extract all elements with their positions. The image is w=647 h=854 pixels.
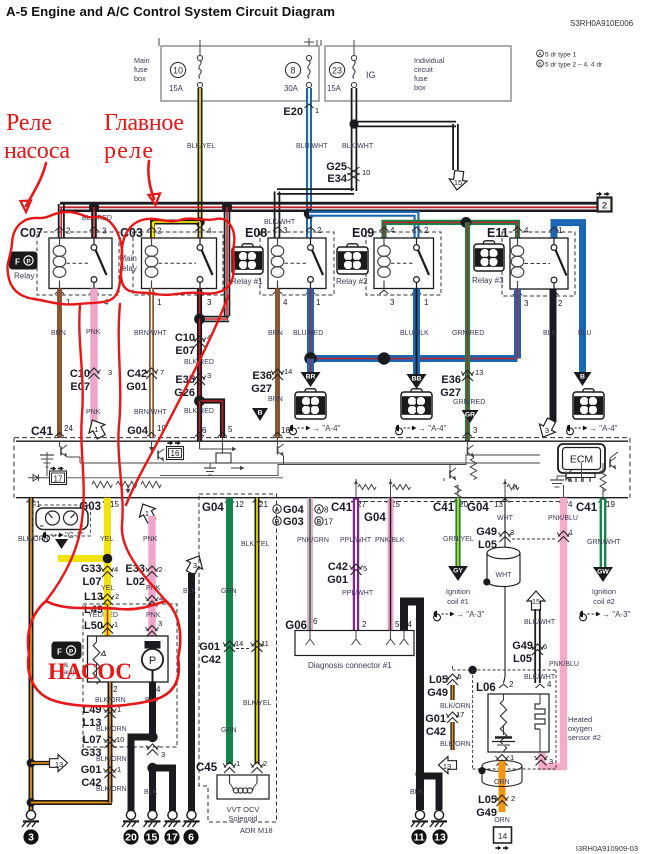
- svg-text:2: 2: [424, 226, 429, 235]
- svg-text:PPL/WHT: PPL/WHT: [342, 590, 374, 597]
- svg-text:2: 2: [511, 794, 515, 803]
- svg-text:L05: L05: [429, 674, 448, 686]
- svg-text:BLK/YEL: BLK/YEL: [241, 541, 270, 548]
- svg-text:BLK: BLK: [144, 789, 158, 796]
- svg-text:4: 4: [156, 685, 161, 694]
- svg-text:GW: GW: [597, 569, 609, 576]
- svg-text:20: 20: [125, 832, 137, 844]
- svg-text:10: 10: [362, 168, 370, 177]
- svg-text:BLK/ORN: BLK/ORN: [96, 786, 127, 793]
- svg-text:C45: C45: [196, 762, 218, 774]
- svg-text:6: 6: [188, 832, 194, 844]
- svg-text:6: 6: [202, 426, 207, 435]
- svg-text:BLU/BLK: BLU/BLK: [400, 330, 429, 337]
- svg-text:G27: G27: [440, 387, 461, 399]
- svg-text:3: 3: [207, 298, 212, 307]
- svg-text:16: 16: [171, 449, 180, 458]
- svg-text:19: 19: [606, 500, 615, 509]
- svg-text:G25: G25: [326, 161, 347, 173]
- svg-text:13: 13: [475, 368, 483, 377]
- svg-text:12: 12: [235, 500, 244, 509]
- svg-text:VVT OCV: VVT OCV: [227, 805, 260, 814]
- svg-text:1: 1: [36, 500, 41, 509]
- svg-text:A: A: [538, 52, 542, 58]
- svg-text:oxygen: oxygen: [568, 724, 592, 733]
- svg-text:YEL: YEL: [101, 585, 114, 592]
- svg-text:BB: BB: [412, 376, 422, 383]
- svg-text:15A: 15A: [327, 84, 342, 93]
- svg-text:A-5 Engine and A/C Control Sys: A-5 Engine and A/C Control System Circui…: [6, 4, 335, 19]
- svg-text:BRN: BRN: [268, 396, 283, 403]
- svg-text:G33: G33: [81, 563, 102, 575]
- svg-text:PNK: PNK: [86, 409, 101, 416]
- svg-text:5 dr type 1: 5 dr type 1: [545, 52, 576, 59]
- svg-text:6: 6: [543, 642, 547, 651]
- svg-text:E07: E07: [70, 381, 90, 393]
- svg-text:BLK/YEL: BLK/YEL: [243, 700, 272, 707]
- svg-text:1: 1: [114, 620, 118, 629]
- svg-text:3: 3: [28, 832, 34, 844]
- svg-text:GY: GY: [453, 568, 463, 575]
- svg-text:Individual: Individual: [414, 56, 445, 65]
- svg-text:GRN/RED: GRN/RED: [453, 399, 485, 406]
- svg-text:17: 17: [456, 710, 464, 719]
- svg-text:box: box: [134, 74, 146, 83]
- svg-text:Реле: Реле: [6, 110, 52, 136]
- svg-text:box: box: [414, 83, 426, 92]
- svg-text:реле: реле: [104, 138, 153, 164]
- svg-text:4: 4: [547, 680, 552, 689]
- svg-text:PNK/GRN: PNK/GRN: [297, 537, 329, 544]
- svg-text:BRN/WHT: BRN/WHT: [134, 330, 167, 337]
- svg-text:G49: G49: [512, 640, 533, 652]
- svg-text:2: 2: [159, 565, 163, 574]
- svg-text:GR: GR: [465, 412, 475, 419]
- svg-text:5: 5: [363, 564, 367, 573]
- svg-text:G03: G03: [283, 516, 304, 528]
- svg-text:13: 13: [434, 832, 446, 844]
- svg-text:BLK/ORN: BLK/ORN: [440, 703, 471, 710]
- svg-text:YEL: YEL: [100, 536, 113, 543]
- svg-text:17: 17: [166, 832, 178, 844]
- svg-text:23: 23: [332, 65, 342, 75]
- svg-text:3: 3: [390, 298, 395, 307]
- svg-text:IG: IG: [366, 70, 376, 80]
- svg-text:2: 2: [113, 685, 118, 694]
- svg-text:BLK: BLK: [183, 588, 197, 595]
- svg-text:E08: E08: [245, 226, 267, 240]
- svg-text:8: 8: [290, 65, 295, 75]
- svg-text:C41: C41: [576, 502, 598, 514]
- svg-text:L07: L07: [83, 734, 102, 746]
- svg-text:10: 10: [173, 65, 183, 75]
- svg-text:BLK/WHT: BLK/WHT: [524, 619, 556, 626]
- svg-text:3: 3: [207, 371, 211, 380]
- svg-text:Heated: Heated: [568, 715, 592, 724]
- svg-text:2: 2: [115, 592, 119, 601]
- svg-text:2: 2: [362, 620, 367, 629]
- svg-text:C41: C41: [331, 502, 353, 514]
- svg-text:E07: E07: [175, 345, 195, 357]
- svg-text:14: 14: [498, 831, 508, 841]
- svg-text:13: 13: [55, 760, 63, 769]
- svg-text:B: B: [258, 410, 263, 417]
- svg-text:G04: G04: [364, 512, 386, 524]
- svg-text:BLK/ORN: BLK/ORN: [96, 756, 127, 763]
- svg-text:1: 1: [94, 425, 98, 434]
- svg-text:Relay #2: Relay #2: [336, 277, 368, 286]
- svg-text:G04: G04: [467, 502, 489, 514]
- svg-text:G04: G04: [283, 504, 305, 516]
- svg-text:B: B: [317, 519, 322, 526]
- svg-text:G49: G49: [476, 526, 497, 538]
- svg-text:BR: BR: [306, 374, 316, 381]
- svg-text:1: 1: [558, 226, 563, 235]
- svg-text:15A: 15A: [169, 84, 184, 93]
- svg-text:5: 5: [228, 425, 233, 434]
- svg-text:13: 13: [494, 500, 503, 509]
- svg-text:S3RH0A910E006: S3RH0A910E006: [570, 19, 634, 28]
- svg-text:E11: E11: [487, 226, 509, 240]
- svg-text:GRN: GRN: [221, 727, 237, 734]
- svg-text:Главное: Главное: [104, 110, 184, 136]
- svg-text:Ignition: Ignition: [592, 587, 616, 596]
- svg-text:Solenoid: Solenoid: [228, 814, 257, 823]
- svg-text:C42: C42: [201, 654, 221, 666]
- svg-text:3: 3: [161, 750, 165, 759]
- svg-text:BLK: BLK: [410, 789, 424, 796]
- svg-text:3: 3: [158, 619, 162, 628]
- svg-text:coil #2: coil #2: [593, 597, 615, 606]
- svg-text:15: 15: [454, 178, 462, 187]
- svg-text:BLK/RED: BLK/RED: [184, 408, 214, 415]
- svg-text:BLU/WHT: BLU/WHT: [296, 143, 328, 150]
- svg-text:C42: C42: [426, 726, 446, 738]
- svg-text:G01: G01: [126, 381, 147, 393]
- svg-text:BRN/WHT: BRN/WHT: [134, 409, 167, 416]
- svg-text:4: 4: [283, 298, 288, 307]
- svg-text:1: 1: [117, 765, 121, 774]
- svg-text:G27: G27: [251, 383, 272, 395]
- svg-text:14: 14: [284, 367, 292, 376]
- svg-text:3: 3: [549, 757, 553, 766]
- svg-text:BLK/ORN: BLK/ORN: [95, 697, 126, 704]
- svg-text:2: 2: [558, 299, 563, 308]
- svg-text:→ "A-4": → "A-4": [418, 424, 447, 433]
- svg-text:4: 4: [114, 565, 118, 574]
- svg-text:A: A: [317, 507, 322, 514]
- svg-text:BLK/ORN: BLK/ORN: [96, 726, 127, 733]
- svg-text:WHT: WHT: [496, 572, 513, 579]
- svg-text:1: 1: [424, 298, 429, 307]
- svg-text:BRN: BRN: [51, 330, 66, 337]
- svg-text:15: 15: [146, 832, 158, 844]
- svg-text:4: 4: [408, 620, 413, 629]
- svg-text:6: 6: [313, 617, 318, 626]
- svg-text:GRN: GRN: [221, 588, 237, 595]
- svg-text:1: 1: [569, 528, 573, 537]
- svg-text:L13: L13: [84, 591, 103, 603]
- svg-text:E34: E34: [327, 173, 347, 185]
- svg-text:2: 2: [157, 227, 162, 236]
- svg-text:→ "A-3": → "A-3": [456, 610, 485, 619]
- svg-text:fuse: fuse: [414, 74, 428, 83]
- svg-text:→ "A-4": → "A-4": [589, 424, 618, 433]
- svg-text:14: 14: [235, 639, 243, 648]
- svg-text:G01: G01: [81, 764, 102, 776]
- svg-text:YEL/RED: YEL/RED: [88, 612, 118, 619]
- svg-text:15: 15: [532, 597, 540, 606]
- svg-text:WHT: WHT: [497, 515, 514, 522]
- svg-text:17: 17: [54, 475, 63, 484]
- svg-text:21: 21: [259, 500, 268, 509]
- svg-text:C10: C10: [175, 332, 195, 344]
- svg-text:E20: E20: [283, 106, 303, 118]
- svg-text:G01: G01: [199, 641, 220, 653]
- svg-text:B: B: [580, 374, 585, 381]
- svg-text:E36: E36: [252, 370, 272, 382]
- svg-text:3: 3: [473, 426, 478, 435]
- svg-text:5: 5: [458, 672, 462, 681]
- svg-text:L07: L07: [83, 576, 102, 588]
- svg-text:BLK/YEL: BLK/YEL: [187, 143, 216, 150]
- svg-text:2: 2: [602, 201, 607, 212]
- svg-text:PPL/WHT: PPL/WHT: [340, 537, 372, 544]
- svg-text:3: 3: [524, 299, 529, 308]
- svg-text:3: 3: [193, 561, 197, 570]
- svg-text:Main: Main: [134, 56, 150, 65]
- svg-text:ORN: ORN: [494, 779, 510, 786]
- svg-text:2: 2: [509, 680, 514, 689]
- svg-text:PNK: PNK: [146, 612, 161, 619]
- svg-text:1: 1: [315, 106, 319, 115]
- svg-text:G01: G01: [425, 713, 446, 725]
- svg-text:sensor #2: sensor #2: [568, 733, 601, 742]
- svg-text:I3RH0A910909-03: I3RH0A910909-03: [576, 844, 638, 853]
- svg-text:1: 1: [236, 759, 240, 768]
- svg-text:fuse: fuse: [134, 65, 148, 74]
- svg-text:G49: G49: [427, 687, 448, 699]
- svg-text:ADR M18: ADR M18: [240, 826, 273, 835]
- svg-text:GRN/RED: GRN/RED: [452, 330, 484, 337]
- svg-text:3: 3: [108, 368, 112, 377]
- svg-text:F: F: [57, 648, 62, 657]
- svg-text:C10: C10: [70, 368, 90, 380]
- svg-text:Relay: Relay: [14, 272, 34, 281]
- svg-text:P: P: [69, 648, 74, 655]
- svg-text:НАСОС: НАСОС: [48, 659, 132, 684]
- svg-text:30A: 30A: [284, 84, 299, 93]
- svg-text:7: 7: [160, 368, 164, 377]
- svg-text:4: 4: [568, 500, 573, 509]
- svg-text:5: 5: [395, 620, 400, 629]
- svg-text:3: 3: [102, 227, 107, 236]
- svg-text:G04: G04: [202, 502, 224, 514]
- svg-text:C41: C41: [31, 424, 53, 438]
- svg-text:BLU/RED: BLU/RED: [293, 330, 323, 337]
- svg-text:L05: L05: [513, 653, 532, 665]
- svg-text:4: 4: [207, 227, 212, 236]
- svg-text:3: 3: [545, 426, 549, 435]
- svg-text:BLK/ORN: BLK/ORN: [440, 741, 471, 748]
- svg-text:ORN: ORN: [494, 817, 510, 824]
- svg-text:BLK/WHT: BLK/WHT: [264, 219, 296, 226]
- svg-text:P: P: [149, 655, 156, 667]
- svg-text:C42: C42: [328, 561, 348, 573]
- svg-text:11: 11: [413, 832, 424, 844]
- svg-text:G04: G04: [127, 425, 149, 437]
- svg-text:1: 1: [316, 298, 321, 307]
- svg-text:L02: L02: [126, 576, 145, 588]
- svg-text:2: 2: [263, 759, 267, 768]
- svg-text:насоса: насоса: [4, 138, 70, 164]
- svg-text:C41: C41: [433, 502, 455, 514]
- svg-text:15: 15: [110, 500, 119, 509]
- svg-text:PNK/BLK: PNK/BLK: [375, 537, 405, 544]
- svg-text:17: 17: [324, 518, 333, 527]
- svg-text:PNK: PNK: [86, 329, 101, 336]
- svg-text:3: 3: [283, 226, 288, 235]
- svg-text:E09: E09: [352, 226, 374, 240]
- svg-text:1: 1: [157, 298, 162, 307]
- svg-text:A: A: [275, 507, 280, 514]
- svg-text:Relay #1: Relay #1: [231, 277, 263, 286]
- svg-text:8: 8: [324, 506, 329, 515]
- svg-text:BLU: BLU: [578, 330, 592, 337]
- svg-text:PNK/BLU: PNK/BLU: [548, 515, 578, 522]
- svg-text:10: 10: [116, 735, 124, 744]
- svg-text:GRN/WHT: GRN/WHT: [587, 539, 621, 546]
- svg-text:C42: C42: [127, 368, 147, 380]
- svg-text:4: 4: [524, 226, 529, 235]
- svg-text:2: 2: [66, 227, 71, 236]
- svg-text:B: B: [275, 519, 280, 526]
- svg-text:coil #1: coil #1: [447, 597, 469, 606]
- svg-text:BLK/WHT: BLK/WHT: [342, 143, 374, 150]
- svg-text:18: 18: [281, 426, 290, 435]
- svg-text:GRN/YEL: GRN/YEL: [443, 536, 474, 543]
- svg-text:→ "A-4": → "A-4": [312, 424, 341, 433]
- svg-text:L06: L06: [476, 682, 496, 694]
- svg-text:PNK: PNK: [143, 536, 158, 543]
- svg-text:BRN: BRN: [268, 330, 283, 337]
- svg-text:B: B: [538, 62, 542, 68]
- svg-text:24: 24: [64, 424, 73, 433]
- svg-text:BLK: BLK: [543, 330, 557, 337]
- svg-text:F: F: [15, 258, 20, 267]
- svg-text:11: 11: [261, 639, 269, 648]
- svg-text:1: 1: [66, 298, 71, 307]
- svg-text:L50: L50: [84, 620, 103, 632]
- svg-text:Relay #3: Relay #3: [472, 276, 504, 285]
- svg-text:C07: C07: [20, 226, 43, 240]
- svg-text:5 dr type 2 – 4, 4 dr: 5 dr type 2 – 4, 4 dr: [545, 62, 603, 69]
- svg-text:PNK/BLU: PNK/BLU: [549, 661, 579, 668]
- svg-text:4: 4: [390, 226, 395, 235]
- svg-text:13: 13: [443, 762, 451, 771]
- svg-text:2: 2: [317, 226, 322, 235]
- svg-text:L05: L05: [478, 794, 497, 806]
- svg-text:G01: G01: [327, 574, 348, 586]
- svg-text:Diagnosis connector #1: Diagnosis connector #1: [308, 661, 392, 670]
- svg-text:3: 3: [510, 528, 514, 537]
- svg-text:circuit: circuit: [414, 65, 433, 74]
- svg-text:P: P: [26, 258, 31, 265]
- svg-text:E36: E36: [441, 374, 461, 386]
- svg-text:→ "A-3": → "A-3": [602, 610, 631, 619]
- svg-text:Ignition: Ignition: [446, 587, 470, 596]
